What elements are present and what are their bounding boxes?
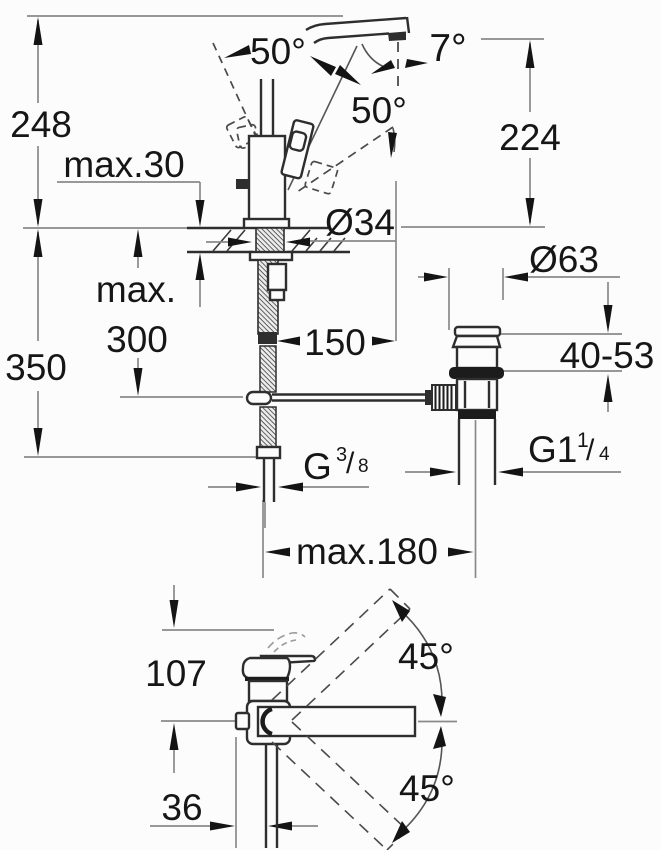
ghost handle right-down dashed bbox=[304, 161, 338, 195]
dim G1 1/4 arrows bbox=[405, 468, 621, 477]
arc arrowheads on axis bbox=[310, 56, 361, 85]
threaded shank below washer bbox=[258, 260, 278, 334]
svg-text:107: 107 bbox=[145, 653, 207, 694]
dim 248 vertical line with arrows bbox=[34, 17, 43, 227]
faucet base flange bbox=[244, 219, 289, 228]
svg-text:Ø63: Ø63 bbox=[529, 239, 599, 280]
dim 350 vertical line with arrows bbox=[24, 229, 258, 457]
hose crimp dark bbox=[258, 332, 277, 344]
arc 7 degrees with arrowheads bbox=[362, 44, 428, 74]
svg-text:350: 350 bbox=[5, 347, 67, 388]
side view aerator square left bbox=[236, 713, 249, 729]
dim max.180 with arrows bbox=[263, 500, 476, 578]
hose tail tube bbox=[264, 458, 274, 528]
fixing spacer right bbox=[268, 264, 286, 300]
dim 36 with arrows bbox=[150, 737, 318, 848]
supply pipe below bbox=[266, 744, 277, 848]
dashed lever 45 down bbox=[272, 722, 407, 850]
label 248 bbox=[10, 104, 72, 145]
arc arrow 50 degrees right lower bbox=[388, 128, 397, 158]
faucet body bbox=[249, 136, 285, 220]
pop-up waste flange seal bbox=[449, 367, 504, 379]
label G 3/8 bbox=[303, 444, 369, 487]
spout outlet dashed axis bbox=[397, 42, 399, 92]
svg-text:150: 150 bbox=[304, 322, 366, 363]
label 50 degrees right bbox=[351, 90, 407, 131]
svg-text:G1: G1 bbox=[528, 429, 577, 470]
pop-up rod ball joint bbox=[247, 392, 271, 404]
label max.180 bbox=[296, 531, 438, 572]
threaded shank through deck bbox=[256, 228, 284, 252]
label 45 degrees bottom bbox=[399, 768, 455, 809]
svg-text:max.180: max.180 bbox=[296, 531, 438, 572]
label 107 bbox=[145, 653, 207, 694]
label max.30 bbox=[63, 144, 184, 185]
pop-up waste collar bbox=[453, 336, 500, 347]
dashed axis right-down bbox=[297, 127, 393, 192]
pop-up waste cap bbox=[455, 327, 500, 336]
label diameter 34 with leader line bbox=[325, 181, 396, 341]
label 40-53 bbox=[560, 335, 655, 376]
svg-text:max.30: max.30 bbox=[63, 144, 184, 185]
svg-text:45°: 45° bbox=[398, 636, 454, 677]
dim 107 vertical with arrows bbox=[161, 585, 274, 773]
svg-text:8: 8 bbox=[358, 456, 369, 477]
mounting washer bbox=[250, 252, 292, 260]
pop-up waste seal band bbox=[458, 410, 496, 417]
svg-text:7°: 7° bbox=[429, 27, 466, 70]
pop-up waste upper body bbox=[457, 347, 497, 368]
dim max.300 vertical with arrows bbox=[120, 229, 243, 397]
svg-text:max.: max. bbox=[96, 269, 176, 310]
svg-text:224: 224 bbox=[499, 117, 561, 158]
dim max.30 leader and arrows bbox=[57, 182, 205, 307]
svg-text:40-53: 40-53 bbox=[560, 335, 655, 376]
svg-text:45°: 45° bbox=[399, 768, 455, 809]
side view main block bbox=[247, 701, 290, 744]
dim 150 arrows bbox=[277, 337, 395, 346]
ghost handle left dashed bbox=[226, 116, 259, 149]
svg-text:G: G bbox=[303, 446, 332, 487]
flexible hose lower bbox=[260, 407, 276, 447]
label 150 bbox=[304, 322, 366, 363]
dim diameter 63 arrows bbox=[418, 268, 620, 330]
arc arrow 50 degrees left bbox=[224, 45, 251, 58]
svg-text:Ø34: Ø34 bbox=[325, 202, 395, 243]
arc 45 down with arrowheads bbox=[392, 726, 446, 843]
faucet spout bbox=[306, 17, 409, 43]
dim 224 vertical with arrows bbox=[401, 39, 545, 227]
dashed lever 45 up bbox=[272, 589, 410, 720]
label 350 bbox=[5, 347, 67, 388]
flexible hose upper bbox=[260, 346, 276, 392]
dim 248 top reference line bbox=[27, 15, 343, 17]
svg-text:/: / bbox=[586, 434, 595, 467]
countertop deck section bbox=[23, 228, 350, 252]
label 45 degrees top bbox=[398, 636, 454, 677]
dashed tilt axis left bbox=[213, 43, 262, 150]
side view cartridge housing bbox=[243, 658, 290, 679]
label 36 bbox=[161, 787, 202, 828]
svg-text:50°: 50° bbox=[351, 90, 407, 131]
faucet left nub bbox=[236, 179, 249, 189]
label 224 bbox=[499, 117, 561, 158]
ghost handle scribbles above bbox=[268, 633, 305, 652]
svg-text:36: 36 bbox=[161, 787, 202, 828]
label diameter 63 bbox=[529, 239, 599, 280]
handle tilt axis right solid bbox=[288, 46, 357, 190]
label G1 1/4 bbox=[528, 429, 610, 470]
pop-up waste lower body bbox=[457, 379, 497, 410]
pop-up waste tail pipe bbox=[458, 414, 496, 528]
lever bar horizontal bbox=[258, 707, 415, 736]
dim diameter 34 hole arrows bbox=[206, 238, 396, 247]
lever centerline right bbox=[418, 721, 457, 723]
svg-text:50°: 50° bbox=[250, 31, 306, 72]
dim G 3/8 arrows bbox=[208, 483, 369, 492]
label 50 degrees left bbox=[250, 31, 306, 72]
rod clamp screw bbox=[425, 385, 456, 410]
label max. 300 bbox=[96, 269, 176, 360]
side view top lever bbox=[261, 656, 315, 664]
dim 40-53 with arrows bbox=[497, 282, 622, 412]
svg-text:248: 248 bbox=[10, 104, 72, 145]
hose nut bbox=[257, 447, 280, 458]
tilted handle bbox=[281, 120, 314, 179]
pop-up rod horizontal bbox=[272, 395, 436, 401]
svg-text:4: 4 bbox=[599, 444, 610, 465]
side view body middle bbox=[249, 681, 287, 701]
svg-text:/: / bbox=[346, 447, 355, 480]
faucet riser pipes bbox=[261, 79, 273, 137]
svg-text:300: 300 bbox=[106, 319, 168, 360]
label 7 degrees bbox=[429, 27, 466, 70]
arc 45 up with arrowheads bbox=[392, 600, 446, 717]
